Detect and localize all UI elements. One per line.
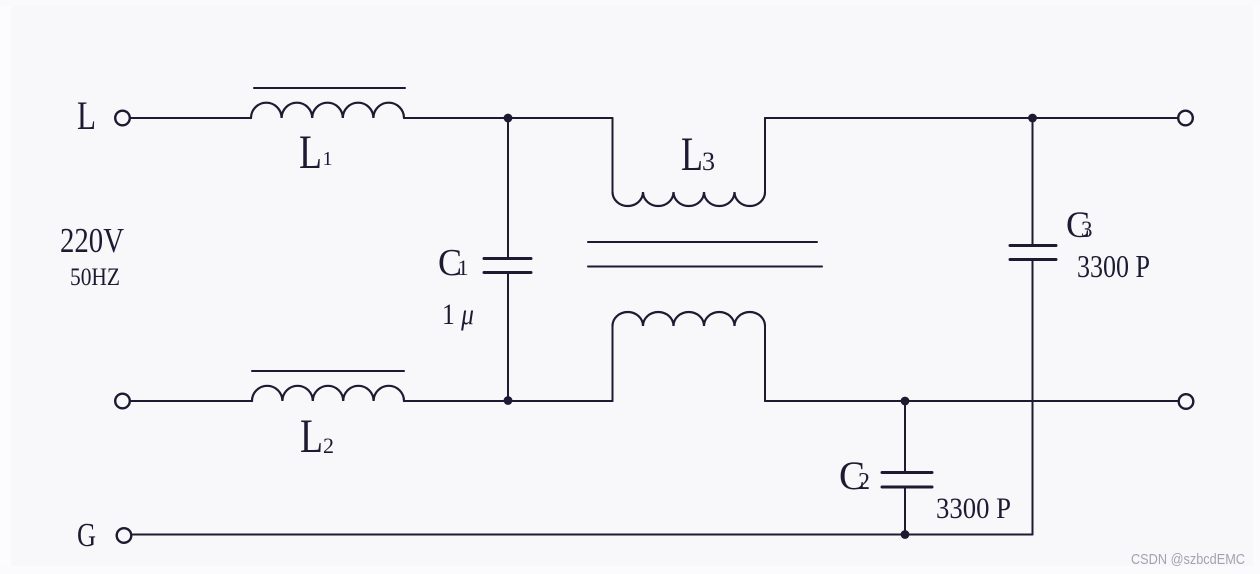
svg-text:1: 1: [458, 255, 469, 280]
wire: [764, 326, 766, 401]
svg-text:220V: 220V: [60, 221, 124, 260]
wire: [765, 117, 1178, 119]
svg-text:L: L: [681, 128, 703, 181]
svg-text:L: L: [77, 93, 96, 138]
wire: [612, 118, 614, 192]
wire: [131, 117, 251, 119]
svg-text:G: G: [77, 517, 96, 554]
inductor L1: [251, 103, 404, 118]
wire: [404, 400, 613, 402]
svg-text:3300 P: 3300 P: [936, 492, 1011, 525]
capacitor C3: [1032, 118, 1034, 244]
wire: [131, 400, 252, 402]
inductor L3 core: [588, 241, 817, 243]
svg-text:2: 2: [323, 433, 334, 458]
wire: [404, 117, 613, 119]
node junction bottom C1: [504, 396, 513, 405]
wire: [612, 326, 614, 401]
svg-text:2: 2: [858, 469, 870, 495]
node junction top C3: [1028, 114, 1037, 123]
svg-text:3: 3: [702, 147, 715, 176]
svg-text:50HZ: 50HZ: [70, 264, 120, 291]
node N terminal: [115, 394, 130, 409]
wire: [765, 400, 1179, 402]
node G terminal: [117, 528, 132, 543]
wire: [133, 534, 1033, 536]
node junction top C2: [901, 397, 910, 406]
wire: [764, 118, 766, 192]
svg-text:L: L: [299, 126, 322, 179]
node L terminal: [115, 111, 130, 126]
capacitor C1: [507, 118, 509, 257]
inductor L3 bottom winding: [613, 312, 766, 326]
inductor L2: [252, 386, 404, 401]
node junction bottom C2: [901, 530, 910, 539]
node junction top C1: [504, 114, 513, 123]
inductor L3 top winding: [613, 192, 766, 206]
node output terminal mid: [1179, 394, 1194, 409]
svg-text:1 μ: 1 μ: [442, 298, 474, 331]
svg-text:CSDN @szbcdEMC: CSDN @szbcdEMC: [1131, 552, 1245, 568]
svg-text:3: 3: [1081, 217, 1093, 242]
node output terminal top: [1178, 111, 1193, 126]
capacitor C2: [904, 401, 906, 471]
svg-text:1: 1: [323, 148, 333, 170]
svg-text:L: L: [300, 410, 323, 463]
svg-text:3300 P: 3300 P: [1077, 248, 1150, 284]
